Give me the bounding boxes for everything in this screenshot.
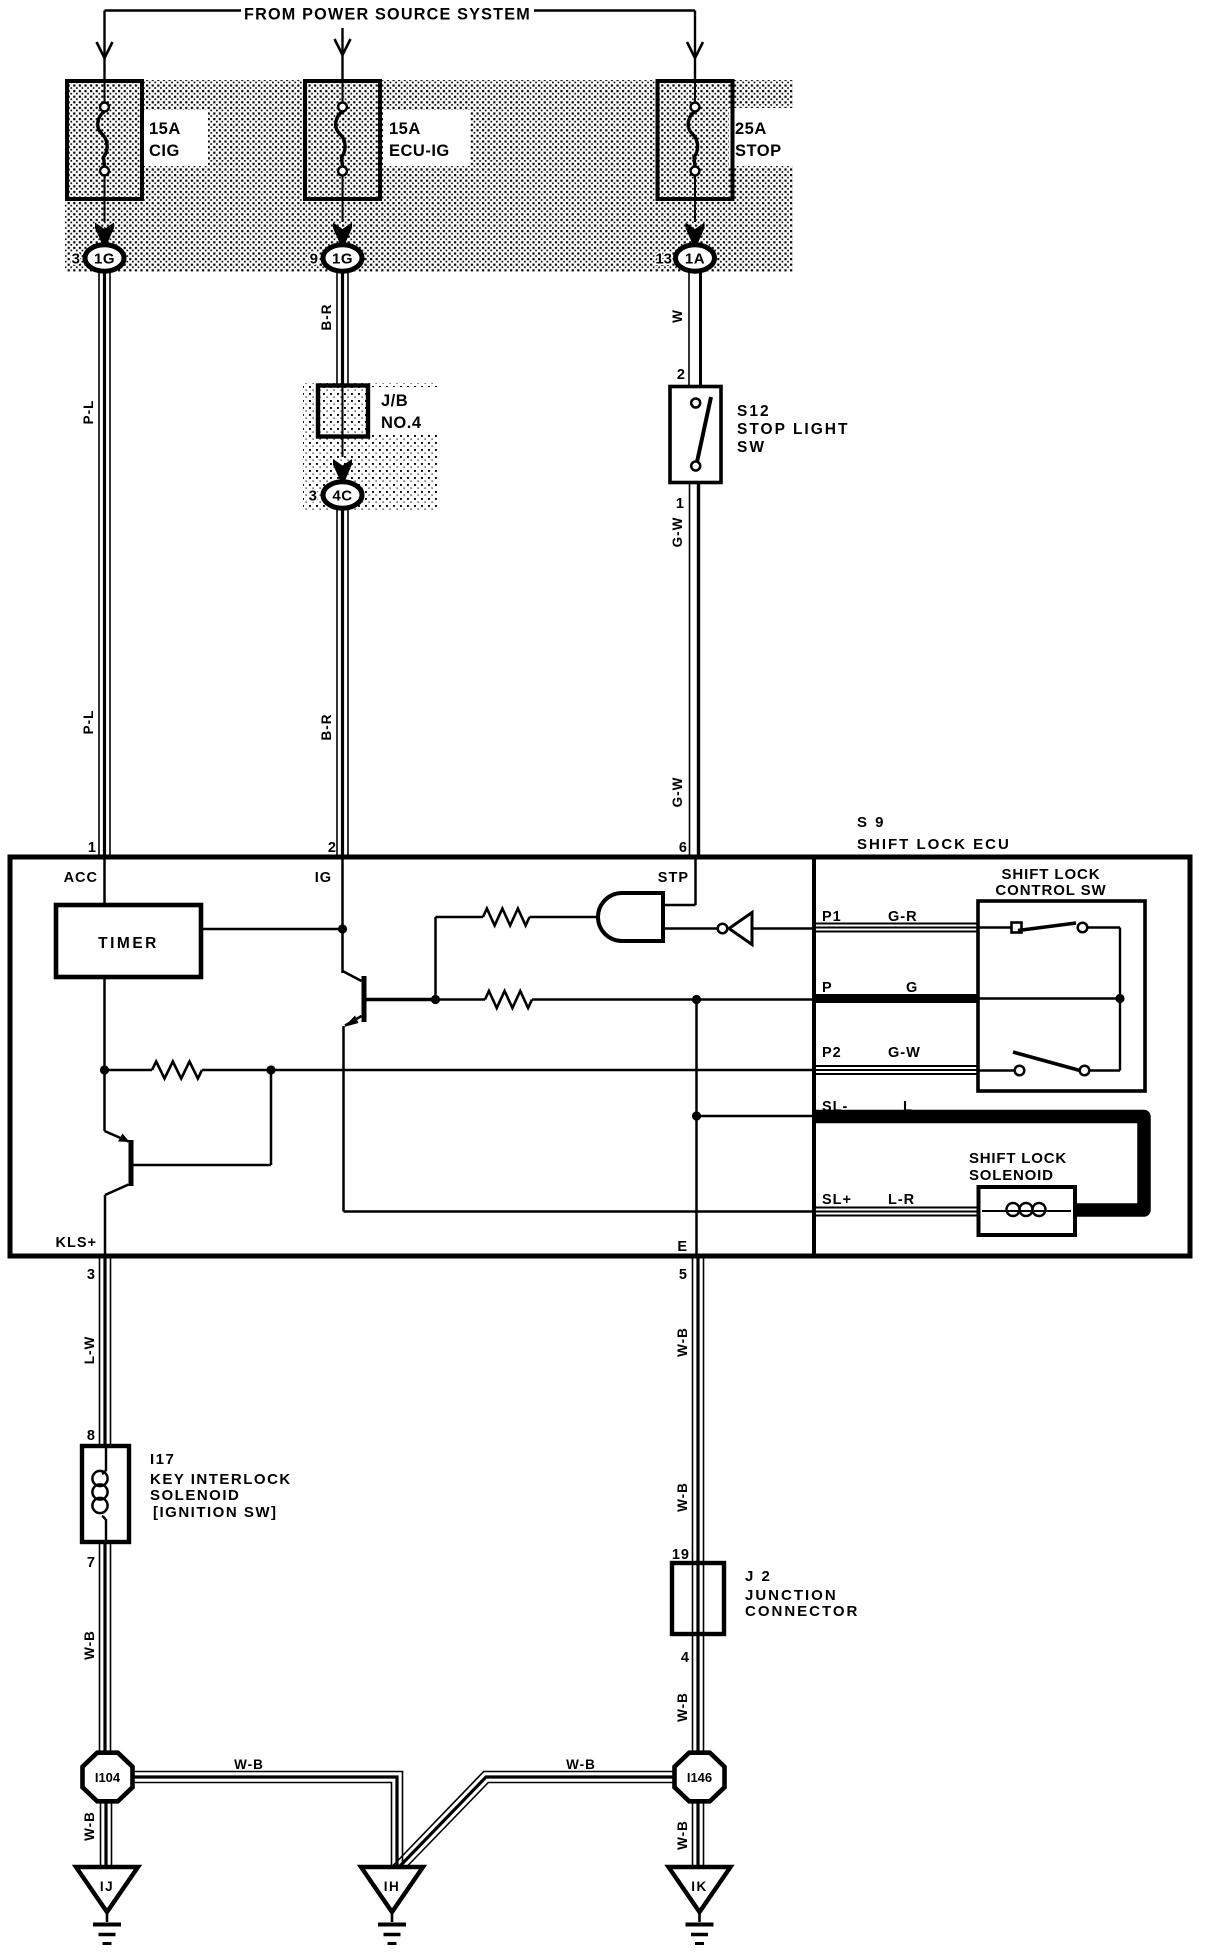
svg-text:25A: 25A [735, 120, 767, 138]
wire SL- L (thick) [814, 1117, 1144, 1211]
svg-text:IJ: IJ [100, 1879, 114, 1894]
wire feeder to ECU-IG fuse [341, 28, 343, 81]
wire L-W pin3 to I17 [99, 1256, 101, 1446]
svg-text:KLS+: KLS+ [56, 1235, 97, 1251]
wire W-B I17 to I104 [99, 1542, 101, 1753]
svg-text:4C: 4C [332, 488, 352, 505]
svg-text:J 2: J 2 [745, 1568, 772, 1585]
node ACC/R3 junction [100, 1065, 109, 1074]
wire ACC vertical [103, 857, 106, 905]
svg-text:SOLENOID: SOLENOID [969, 1167, 1054, 1184]
svg-text:P: P [822, 980, 833, 996]
svg-text:SHIFT LOCK ECU: SHIFT LOCK ECU [857, 836, 1011, 853]
svg-text:15A: 15A [389, 120, 421, 138]
svg-text:3: 3 [309, 488, 317, 505]
wire P1 G-R [814, 923, 978, 925]
transistor Q1 [362, 976, 367, 1022]
wire P G (thick) [814, 994, 978, 1003]
svg-text:19: 19 [672, 1547, 690, 1563]
svg-text:W-B: W-B [675, 1692, 690, 1722]
switch contact 2 (P2) [978, 1069, 1015, 1071]
junction connector J2 [672, 1563, 724, 1634]
svg-text:G-W: G-W [670, 517, 685, 548]
svg-text:15A: 15A [149, 120, 181, 138]
svg-text:3: 3 [72, 251, 80, 268]
solenoid coil [1007, 1203, 1020, 1216]
svg-text:5: 5 [679, 1267, 688, 1283]
svg-text:SW: SW [737, 439, 766, 456]
svg-text:KEY INTERLOCK: KEY INTERLOCK [150, 1471, 292, 1488]
timer block [56, 905, 201, 977]
junction I104 [83, 1753, 133, 1802]
stipple area J/B No.4 [303, 383, 437, 511]
wire W-B I104 to IH [133, 1772, 403, 1868]
svg-text:W-B: W-B [234, 1757, 264, 1772]
ECU box S9 shift lock ecu [10, 857, 1190, 1256]
svg-text:1: 1 [88, 840, 97, 856]
switch common vertical [1119, 928, 1121, 1071]
resistor R1 (gate output) [434, 917, 437, 1000]
junction I146 [675, 1753, 725, 1802]
svg-text:G-R: G-R [888, 909, 918, 925]
wire W-B I146 to IH [392, 1772, 674, 1868]
svg-text:W-B: W-B [675, 1327, 690, 1357]
svg-text:B-R: B-R [319, 304, 334, 331]
transistor Q2 [270, 1070, 273, 1165]
wire STP input [694, 857, 697, 905]
svg-text:CONNECTOR: CONNECTOR [745, 1603, 859, 1620]
node FROM POWER SOURCE SYSTEM [105, 9, 242, 12]
svg-text:1G: 1G [332, 251, 353, 268]
svg-text:NO.4: NO.4 [381, 414, 422, 432]
svg-text:CIG: CIG [149, 142, 180, 160]
svg-text:G: G [906, 980, 918, 996]
wire W-B pin5 to J2 [692, 1256, 694, 1753]
stipple band power source area [65, 80, 793, 272]
svg-text:FROM POWER SOURCE SYSTEM: FROM POWER SOURCE SYSTEM [244, 6, 531, 24]
ground IK [669, 1867, 731, 1912]
resistor R2 (P line) [436, 998, 486, 1001]
node sw common [1115, 994, 1124, 1003]
svg-text:STOP LIGHT: STOP LIGHT [737, 421, 849, 438]
ground IJ [76, 1867, 138, 1912]
AND gate U1 [598, 893, 663, 941]
svg-text:P2: P2 [822, 1045, 842, 1061]
wire Q1 emitter to SL+ row [342, 1026, 345, 1212]
node timer/IG junction [338, 924, 347, 933]
switch S12 stop light sw [670, 387, 721, 483]
wire SL+ L-R [814, 1207, 979, 1209]
svg-text:1: 1 [676, 496, 685, 512]
svg-text:SL+: SL+ [822, 1192, 852, 1208]
connector 1G pin 9 [333, 223, 352, 246]
connector 1G pin 3 [95, 223, 114, 246]
svg-text:8: 8 [87, 1428, 96, 1444]
wire E vertical [695, 1000, 698, 1257]
solenoid L1 box [979, 1187, 1076, 1235]
ECU internal divider [812, 857, 816, 1256]
svg-text:P1: P1 [822, 909, 842, 925]
svg-text:E: E [677, 1239, 688, 1255]
svg-text:1A: 1A [685, 251, 705, 268]
svg-text:S12: S12 [737, 403, 771, 420]
connector 1A pin 13 [686, 223, 705, 246]
svg-text:IG: IG [315, 870, 332, 886]
svg-text:I17: I17 [150, 1451, 175, 1468]
svg-text:L-W: L-W [82, 1336, 97, 1364]
svg-text:G-W: G-W [670, 777, 685, 808]
wire W-B I146 to IK ground [692, 1801, 694, 1867]
svg-text:STOP: STOP [735, 142, 782, 160]
svg-text:STP: STP [658, 870, 689, 886]
svg-text:I146: I146 [687, 1770, 712, 1785]
svg-text:G-W: G-W [888, 1045, 921, 1061]
resistor R3 (ACC row) [105, 1069, 153, 1072]
node P junction [692, 995, 701, 1004]
wire B-R lower pin2 IG [336, 509, 338, 858]
svg-text:SHIFT LOCK: SHIFT LOCK [969, 1150, 1067, 1167]
svg-text:W-B: W-B [82, 1630, 97, 1660]
inverter U2 [665, 927, 717, 930]
svg-text:IH: IH [384, 1879, 401, 1894]
svg-text:13: 13 [655, 251, 672, 268]
key interlock solenoid I17 [82, 1446, 129, 1542]
svg-text:IK: IK [691, 1879, 708, 1894]
wire timer output [201, 928, 343, 931]
node R3/base junction [266, 1065, 275, 1074]
node SL- junction [692, 1111, 701, 1120]
connector 4C pin 3 [333, 459, 352, 482]
svg-text:W-B: W-B [566, 1757, 596, 1772]
svg-text:4: 4 [681, 1650, 690, 1666]
fuse ECU-IG [305, 81, 380, 199]
svg-text:SHIFT LOCK: SHIFT LOCK [1002, 866, 1101, 883]
svg-text:W-B: W-B [675, 1820, 690, 1850]
wire IG vertical [341, 857, 344, 973]
svg-text:I104: I104 [95, 1770, 121, 1785]
svg-text:2: 2 [677, 367, 686, 383]
wire P-L pin1 ACC [98, 272, 100, 858]
svg-text:SL-: SL- [822, 1099, 848, 1115]
svg-text:B-R: B-R [319, 714, 334, 741]
svg-text:P-L: P-L [81, 710, 96, 735]
svg-text:L: L [903, 1099, 913, 1115]
svg-text:L-R: L-R [888, 1192, 915, 1208]
svg-text:ECU-IG: ECU-IG [389, 142, 450, 160]
ground IH [361, 1867, 423, 1912]
fuse CIG [67, 81, 142, 199]
wire feeder to STOP fuse [694, 11, 696, 82]
wire KLS+ [104, 1195, 107, 1256]
wire P2 G-W [814, 1065, 978, 1067]
wire W to stop light switch [688, 272, 690, 387]
svg-text:2: 2 [328, 840, 337, 856]
svg-text:J/B: J/B [381, 392, 408, 410]
svg-text:[IGNITION SW]: [IGNITION SW] [153, 1504, 278, 1521]
svg-text:S 9: S 9 [857, 814, 886, 831]
svg-text:SOLENOID: SOLENOID [150, 1487, 240, 1504]
svg-text:9: 9 [310, 251, 318, 268]
wire SL- internal [697, 1115, 815, 1118]
node R1/P junction [431, 995, 440, 1004]
svg-text:CONTROL SW: CONTROL SW [995, 882, 1106, 899]
fuse STOP [658, 81, 733, 199]
switch contact 1 (P1) [978, 926, 1012, 928]
wire W-B I104 to IJ ground [100, 1801, 102, 1867]
svg-text:W: W [670, 309, 685, 323]
wire feeder to CIG fuse [103, 11, 105, 82]
svg-text:P-L: P-L [81, 400, 96, 425]
svg-text:W-B: W-B [675, 1482, 690, 1512]
control sw box [978, 901, 1145, 1091]
svg-text:TIMER: TIMER [98, 935, 159, 952]
svg-text:7: 7 [87, 1555, 96, 1571]
svg-text:1G: 1G [94, 251, 115, 268]
svg-text:W-B: W-B [82, 1811, 97, 1841]
svg-text:6: 6 [679, 840, 688, 856]
svg-text:JUNCTION: JUNCTION [745, 1587, 838, 1604]
junction block J/B NO.4 [318, 386, 368, 437]
svg-text:ACC: ACC [64, 870, 98, 886]
svg-text:3: 3 [87, 1267, 96, 1283]
wire B-R upper [336, 272, 338, 386]
